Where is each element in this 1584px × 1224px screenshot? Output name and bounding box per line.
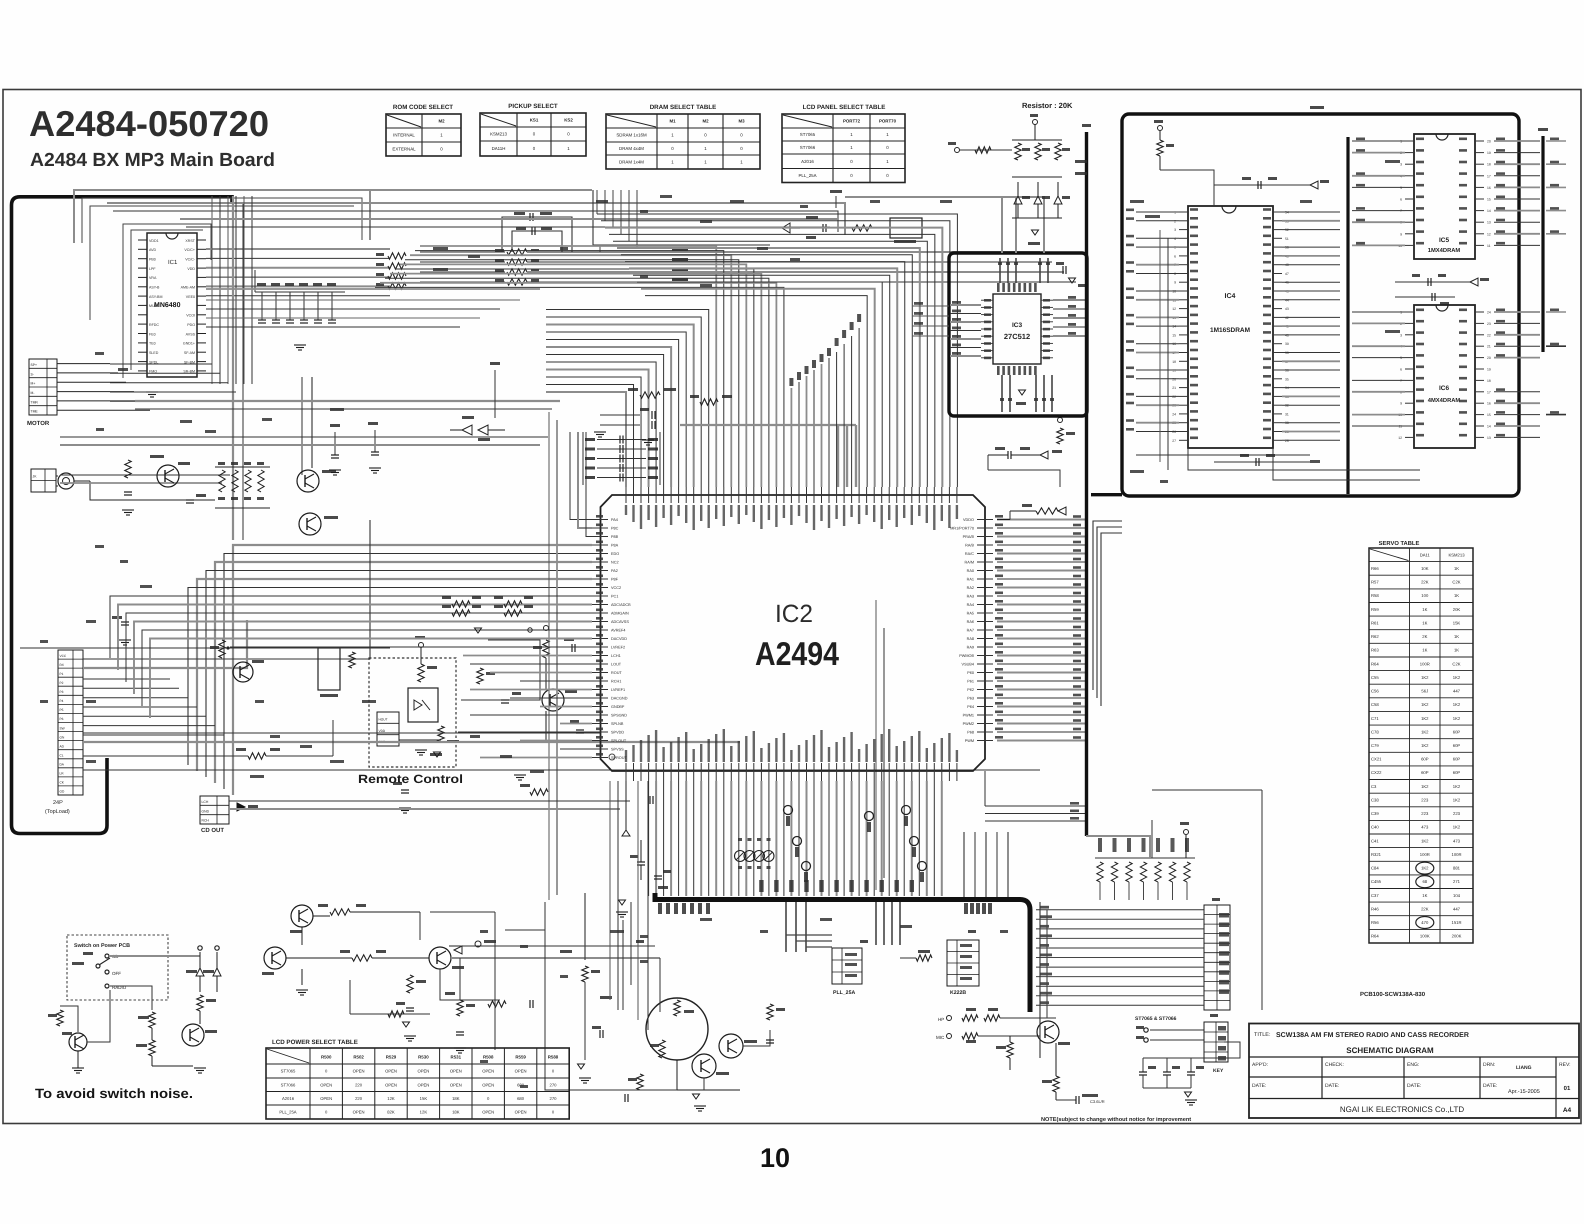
svg-text:1K2: 1K2 [1421, 743, 1429, 748]
svg-text:ST7066: ST7066 [800, 145, 816, 150]
svg-text:A4: A4 [1563, 1107, 1572, 1114]
svg-text:SP+: SP+ [31, 363, 38, 367]
svg-text:PWM: PWM [965, 739, 974, 743]
svg-text:PORT70: PORT70 [879, 119, 897, 124]
svg-text:R500: R500 [321, 1055, 332, 1060]
svg-text:60P: 60P [1421, 770, 1429, 775]
svg-text:1K2: 1K2 [1453, 716, 1461, 721]
svg-text:S-: S- [31, 372, 34, 376]
svg-text:1K: 1K [1454, 648, 1459, 653]
svg-text:ST7066: ST7066 [281, 1082, 296, 1087]
svg-text:21: 21 [1487, 345, 1491, 349]
svg-text:IC1: IC1 [168, 259, 178, 266]
svg-text:C41: C41 [1371, 838, 1379, 843]
svg-text:RA2: RA2 [967, 586, 974, 590]
svg-text:DACVDD: DACVDD [611, 637, 627, 641]
svg-text:12K: 12K [420, 1110, 428, 1115]
svg-text:DACGND: DACGND [611, 697, 628, 701]
svg-text:R64: R64 [1371, 934, 1379, 939]
svg-text:RCH: RCH [202, 819, 210, 823]
svg-text:60P: 60P [1453, 770, 1461, 775]
svg-text:M2: M2 [702, 119, 709, 124]
svg-text:PRA/B: PRA/B [963, 535, 975, 539]
svg-text:RA1: RA1 [967, 578, 974, 582]
svg-text:GND1+: GND1+ [183, 342, 195, 346]
svg-text:18K: 18K [452, 1110, 460, 1115]
svg-text:RA8: RA8 [967, 637, 974, 641]
svg-text:68: 68 [1422, 879, 1427, 884]
svg-text:VRA: VRA [149, 276, 157, 280]
svg-text:APP'D:: APP'D: [1252, 1062, 1268, 1068]
svg-text:1MX4DRAM: 1MX4DRAM [1428, 248, 1461, 254]
svg-text:P2: P2 [60, 681, 64, 685]
svg-text:KS1: KS1 [530, 118, 539, 123]
svg-text:11: 11 [1487, 244, 1491, 248]
svg-text:13: 13 [1487, 221, 1491, 225]
svg-text:DRAM 4x4M: DRAM 4x4M [619, 146, 644, 151]
svg-text:PORT72: PORT72 [843, 119, 861, 124]
svg-text:60P: 60P [1453, 729, 1461, 734]
svg-text:CD OUT: CD OUT [201, 827, 224, 834]
svg-text:CL: CL [60, 754, 64, 758]
svg-text:AVD: AVD [149, 248, 157, 252]
svg-text:R529: R529 [386, 1055, 397, 1060]
svg-text:100R: 100R [1420, 661, 1430, 666]
svg-text:LCD PANEL SELECT TABLE: LCD PANEL SELECT TABLE [803, 104, 886, 111]
svg-text:6: 6 [1174, 254, 1176, 258]
svg-text:VSUB4: VSUB4 [962, 663, 974, 667]
svg-text:IC2: IC2 [775, 600, 813, 628]
svg-text:470: 470 [1421, 920, 1429, 925]
svg-text:FE0: FE0 [149, 332, 156, 336]
svg-text:1K2: 1K2 [1421, 675, 1429, 680]
svg-text:RCH1: RCH1 [611, 680, 621, 684]
svg-text:C40: C40 [1371, 825, 1379, 830]
svg-text:C39: C39 [1371, 811, 1379, 816]
svg-text:ENG:: ENG: [1407, 1062, 1419, 1068]
svg-text:31: 31 [1285, 412, 1289, 416]
svg-text:P8B: P8B [611, 535, 619, 539]
svg-text:OPEN: OPEN [482, 1082, 494, 1087]
svg-text:SPSGND: SPSGND [611, 714, 627, 718]
svg-text:To avoid switch noise.: To avoid switch noise. [35, 1086, 193, 1101]
svg-text:EDO: EDO [611, 552, 619, 556]
svg-text:NGAI LIK ELECTRONICS Co.,LTD: NGAI LIK ELECTRONICS Co.,LTD [1340, 1105, 1465, 1114]
svg-text:200K: 200K [1452, 934, 1462, 939]
svg-text:LIANG: LIANG [1516, 1065, 1532, 1071]
svg-text:VEE0: VEE0 [186, 295, 195, 299]
svg-text:C55: C55 [1371, 675, 1379, 680]
svg-text:RA7: RA7 [967, 629, 974, 633]
svg-text:OPEN: OPEN [515, 1069, 527, 1074]
svg-text:15K: 15K [1453, 620, 1461, 625]
svg-text:LPF: LPF [149, 267, 156, 271]
svg-text:24: 24 [1172, 412, 1176, 416]
svg-text:AVREF4: AVREF4 [611, 629, 626, 633]
svg-text:1K: 1K [1454, 566, 1459, 571]
svg-text:LR: LR [60, 772, 65, 776]
svg-text:GND: GND [202, 809, 210, 813]
svg-text:51: 51 [1285, 237, 1289, 241]
svg-text:223: 223 [1453, 811, 1461, 816]
svg-text:VC/C+: VC/C+ [184, 248, 195, 252]
svg-text:R59: R59 [1371, 607, 1379, 612]
svg-text:HOUT: HOUT [379, 718, 388, 722]
svg-text:13: 13 [1487, 436, 1491, 440]
svg-text:TITLE:: TITLE: [1254, 1032, 1271, 1038]
svg-text:CHECK:: CHECK: [1325, 1062, 1344, 1068]
svg-text:P68: P68 [967, 731, 974, 735]
svg-text:MR1/PORT70: MR1/PORT70 [950, 527, 974, 531]
svg-text:151R: 151R [1451, 920, 1461, 925]
svg-text:271: 271 [1453, 879, 1461, 884]
svg-text:IC5: IC5 [1439, 237, 1450, 244]
svg-text:DRAM 1x4M: DRAM 1x4M [619, 160, 644, 165]
svg-text:1K2: 1K2 [1421, 716, 1429, 721]
svg-text:14: 14 [1487, 425, 1491, 429]
svg-text:ASY-BM: ASY-BM [149, 295, 162, 299]
svg-text:DA11: DA11 [1420, 552, 1431, 557]
svg-text:SCW138A AM FM STEREO RADIO A: SCW138A AM FM STEREO RADIO AND CASS RECO… [1276, 1032, 1469, 1039]
svg-text:P4: P4 [60, 699, 64, 703]
svg-text:IC4: IC4 [1225, 293, 1236, 300]
svg-text:SW: SW [60, 726, 65, 730]
svg-text:TME: TME [31, 410, 39, 414]
svg-text:ROM CODE SELECT: ROM CODE SELECT [393, 104, 453, 111]
svg-text:XRST: XRST [185, 239, 195, 243]
svg-text:R57: R57 [1371, 580, 1379, 585]
svg-text:PICKUP SELECT: PICKUP SELECT [508, 103, 558, 110]
svg-text:MIC: MIC [936, 1035, 945, 1040]
svg-text:LCD POWER SELECT TABLE: LCD POWER SELECT TABLE [272, 1039, 358, 1046]
svg-text:VDD: VDD [187, 267, 195, 271]
svg-text:R56: R56 [1371, 920, 1379, 925]
svg-text:PB0: PB0 [149, 258, 156, 262]
svg-text:P8F: P8F [611, 578, 619, 582]
svg-text:C78: C78 [1371, 729, 1379, 734]
svg-text:M1: M1 [669, 119, 676, 124]
svg-text:RA5: RA5 [967, 612, 974, 616]
svg-text:VCOI: VCOI [186, 314, 195, 318]
svg-text:60P: 60P [1453, 743, 1461, 748]
svg-text:P8A: P8A [611, 544, 619, 548]
svg-text:1K: 1K [1454, 634, 1459, 639]
svg-text:RA3: RA3 [967, 595, 974, 599]
svg-text:RA/M: RA/M [965, 561, 975, 565]
svg-text:DATE:: DATE: [1483, 1083, 1497, 1089]
svg-text:SPLOUT: SPLOUT [611, 739, 627, 743]
svg-text:PLL_25A: PLL_25A [798, 173, 816, 178]
svg-text:1K2: 1K2 [1453, 784, 1461, 789]
svg-text:PA2: PA2 [611, 569, 618, 573]
svg-text:ASY-B: ASY-B [149, 286, 160, 290]
svg-text:15: 15 [1172, 333, 1176, 337]
svg-text:PDO: PDO [187, 323, 195, 327]
svg-text:R321: R321 [1371, 852, 1382, 857]
svg-text:1K2: 1K2 [1421, 866, 1429, 871]
svg-text:K222B: K222B [950, 990, 966, 996]
svg-text:15: 15 [1487, 413, 1491, 417]
svg-text:LVREF2: LVREF2 [611, 646, 625, 650]
svg-text:KSM213: KSM213 [1448, 552, 1465, 557]
svg-text:P64: P64 [967, 705, 974, 709]
svg-text:9: 9 [1400, 232, 1402, 236]
svg-text:DRAM SELECT TABLE: DRAM SELECT TABLE [650, 104, 717, 111]
svg-text:1K2: 1K2 [1453, 825, 1461, 830]
svg-text:C3: C3 [1371, 784, 1377, 789]
svg-text:OPEN: OPEN [385, 1069, 397, 1074]
svg-text:23: 23 [1487, 322, 1491, 326]
svg-text:C455: C455 [1371, 879, 1382, 884]
svg-text:RA/C: RA/C [965, 552, 974, 556]
svg-text:PA4: PA4 [611, 518, 618, 522]
svg-text:PWM2: PWM2 [963, 722, 974, 726]
svg-text:1K2: 1K2 [1421, 702, 1429, 707]
svg-text:82K: 82K [387, 1110, 395, 1115]
svg-text:LCH: LCH [202, 800, 209, 804]
svg-text:R64: R64 [1371, 661, 1379, 666]
svg-text:100K: 100K [1420, 934, 1430, 939]
svg-text:ADMGAIN: ADMGAIN [611, 612, 629, 616]
svg-text:SDRAM 1x16M: SDRAM 1x16M [616, 133, 647, 138]
svg-text:RA6: RA6 [967, 620, 974, 624]
svg-text:VDD1: VDD1 [149, 239, 159, 243]
svg-text:100R: 100R [1420, 852, 1430, 857]
svg-text:223: 223 [1421, 798, 1429, 803]
svg-text:R559: R559 [515, 1055, 526, 1060]
svg-text:12K: 12K [387, 1096, 395, 1101]
svg-text:1K2: 1K2 [1421, 838, 1429, 843]
svg-text:Apr.-15-2005: Apr.-15-2005 [1508, 1089, 1540, 1095]
svg-text:C37: C37 [1371, 893, 1379, 898]
svg-text:21: 21 [1172, 386, 1176, 390]
svg-text:ST7065 & ST7066: ST7065 & ST7066 [1135, 1016, 1177, 1022]
svg-text:P8C: P8C [611, 527, 619, 531]
svg-text:CX21: CX21 [1371, 757, 1382, 762]
svg-text:1K: 1K [1422, 620, 1427, 625]
svg-text:1K2: 1K2 [1453, 798, 1461, 803]
svg-text:C2K: C2K [1452, 580, 1460, 585]
svg-text:C56: C56 [1371, 689, 1379, 694]
svg-text:A2484 BX MP3 Main Board: A2484 BX MP3 Main Board [30, 150, 275, 171]
svg-text:6: 6 [1400, 198, 1402, 202]
svg-text:22: 22 [1487, 333, 1491, 337]
svg-text:22K: 22K [1421, 906, 1429, 911]
svg-text:18K: 18K [452, 1096, 460, 1101]
svg-text:R61: R61 [1371, 620, 1379, 625]
svg-text:100R: 100R [1451, 852, 1461, 857]
svg-text:A2494: A2494 [755, 635, 840, 672]
svg-text:R58: R58 [1371, 593, 1379, 598]
svg-text:IC6: IC6 [1439, 385, 1450, 392]
svg-text:1K2: 1K2 [1453, 702, 1461, 707]
svg-text:223: 223 [1421, 811, 1429, 816]
svg-text:KS2: KS2 [564, 118, 573, 123]
svg-text:R46: R46 [1371, 906, 1379, 911]
svg-text:LCH1: LCH1 [611, 654, 621, 658]
svg-text:R66: R66 [1371, 566, 1379, 571]
svg-text:Resistor : 20K: Resistor : 20K [1022, 101, 1073, 110]
svg-text:DATE:: DATE: [1325, 1083, 1339, 1089]
svg-text:MUTE: MUTE [149, 304, 160, 308]
svg-text:104: 104 [1453, 893, 1461, 898]
svg-text:18: 18 [1172, 360, 1176, 364]
svg-text:SPVSS: SPVSS [611, 748, 624, 752]
svg-text:RA9: RA9 [967, 646, 974, 650]
svg-text:RA/B: RA/B [965, 544, 974, 548]
svg-text:R531: R531 [451, 1055, 462, 1060]
svg-text:AME-AM: AME-AM [181, 286, 195, 290]
svg-text:ROUT: ROUT [611, 671, 622, 675]
svg-text:10K: 10K [1421, 566, 1429, 571]
svg-text:A2016: A2016 [282, 1096, 295, 1101]
svg-text:GNDBF: GNDBF [611, 705, 625, 709]
svg-text:GN: GN [60, 735, 65, 739]
svg-text:VC/C-: VC/C- [185, 258, 196, 262]
svg-text:20K: 20K [1453, 607, 1461, 612]
svg-text:LOUT: LOUT [611, 663, 622, 667]
svg-text:(TopLoad): (TopLoad) [45, 809, 70, 815]
svg-text:12: 12 [1398, 436, 1402, 440]
svg-text:PC1: PC1 [611, 595, 618, 599]
svg-text:KEY: KEY [1213, 1068, 1224, 1074]
svg-text:SF-AM: SF-AM [184, 351, 195, 355]
svg-text:1K: 1K [1454, 593, 1459, 598]
svg-text:ADC/ADCB: ADC/ADCB [611, 603, 631, 607]
svg-text:RA0: RA0 [967, 569, 974, 573]
svg-text:16: 16 [1487, 402, 1491, 406]
svg-text:43: 43 [1285, 307, 1289, 311]
svg-text:1K2: 1K2 [1421, 784, 1429, 789]
svg-text:VDD: VDD [379, 729, 386, 733]
svg-text:1K2: 1K2 [1421, 729, 1429, 734]
svg-text:22K: 22K [1421, 580, 1429, 585]
svg-text:A2016: A2016 [801, 159, 814, 164]
svg-text:C38: C38 [1371, 798, 1379, 803]
svg-text:TMR: TMR [31, 400, 39, 404]
svg-text:20: 20 [1487, 356, 1491, 360]
svg-text:OPEN: OPEN [417, 1069, 429, 1074]
svg-text:R588: R588 [548, 1055, 559, 1060]
svg-text:R62: R62 [1371, 634, 1379, 639]
svg-text:OPEN: OPEN [417, 1082, 429, 1087]
svg-text:P61: P61 [967, 680, 974, 684]
svg-text:100: 100 [1421, 593, 1429, 598]
svg-text:680: 680 [517, 1096, 525, 1101]
svg-text:R508: R508 [483, 1055, 494, 1060]
svg-text:SPLNB: SPLNB [611, 722, 624, 726]
svg-text:9: 9 [1400, 402, 1402, 406]
svg-text:AVSS: AVSS [186, 332, 196, 336]
svg-text:18: 18 [1487, 379, 1491, 383]
svg-text:17: 17 [1487, 390, 1491, 394]
svg-text:447: 447 [1453, 906, 1461, 911]
svg-text:OPEN: OPEN [482, 1110, 494, 1115]
svg-text:SLED: SLED [149, 351, 159, 355]
svg-text:60P: 60P [1453, 757, 1461, 762]
svg-text:OPEN: OPEN [482, 1069, 494, 1074]
svg-text:SCHEMATIC DIAGRAM: SCHEMATIC DIAGRAM [1346, 1046, 1434, 1055]
svg-text:DA11H: DA11H [492, 146, 506, 151]
svg-text:10: 10 [760, 1143, 790, 1173]
svg-text:C3.6L/R: C3.6L/R [1090, 1099, 1105, 1104]
svg-text:39: 39 [1285, 342, 1289, 346]
svg-text:REV:: REV: [1559, 1062, 1570, 1068]
svg-text:R63: R63 [1371, 648, 1379, 653]
svg-text:OFF: OFF [112, 971, 121, 976]
svg-text:27: 27 [1172, 439, 1176, 443]
svg-text:MOTOR: MOTOR [27, 420, 50, 427]
svg-text:NC2: NC2 [611, 561, 619, 565]
svg-text:P6: P6 [60, 717, 64, 721]
svg-text:C71: C71 [1371, 716, 1379, 721]
svg-text:P1: P1 [60, 672, 64, 676]
svg-text:3: 3 [1174, 228, 1176, 232]
svg-text:NOTE(subject to change without: NOTE(subject to change without notice fo… [1041, 1116, 1191, 1123]
svg-text:OPEN: OPEN [320, 1082, 332, 1087]
svg-text:DATE:: DATE: [1407, 1083, 1421, 1089]
svg-text:M+: M+ [31, 382, 36, 386]
svg-text:56J: 56J [1421, 689, 1428, 694]
svg-text:OPEN: OPEN [385, 1082, 397, 1087]
svg-text:1M16SDRAM: 1M16SDRAM [1210, 327, 1250, 334]
svg-text:GD: GD [60, 790, 65, 794]
svg-text:P63: P63 [967, 697, 974, 701]
svg-text:24P: 24P [53, 800, 63, 806]
svg-text:4MX4DRAM: 4MX4DRAM [1428, 398, 1461, 404]
svg-text:INTERNAL: INTERNAL [393, 133, 415, 138]
svg-text:1K: 1K [1422, 648, 1427, 653]
svg-text:1K2: 1K2 [1453, 675, 1461, 680]
svg-text:SERVO TABLE: SERVO TABLE [1379, 540, 1420, 547]
svg-text:P3: P3 [60, 690, 64, 694]
svg-text:15: 15 [1487, 198, 1491, 202]
svg-text:12: 12 [1487, 232, 1491, 236]
svg-text:M-: M- [31, 391, 35, 395]
svg-text:VCC: VCC [60, 654, 67, 658]
svg-text:47: 47 [1285, 272, 1289, 276]
svg-text:OPEN: OPEN [353, 1110, 365, 1115]
svg-text:1K: 1K [1422, 607, 1427, 612]
svg-text:2K: 2K [1422, 634, 1427, 639]
svg-text:OPEN: OPEN [320, 1096, 332, 1101]
svg-text:R530: R530 [418, 1055, 429, 1060]
svg-text:PLL_25A: PLL_25A [279, 1110, 296, 1115]
svg-text:24: 24 [1487, 311, 1491, 315]
svg-text:OPEN: OPEN [450, 1069, 462, 1074]
svg-text:C84: C84 [1371, 866, 1379, 871]
svg-text:A2484-050720: A2484-050720 [29, 103, 269, 144]
svg-text:DATE:: DATE: [1252, 1083, 1266, 1089]
svg-text:ST7065: ST7065 [281, 1069, 296, 1074]
svg-text:P5: P5 [60, 708, 64, 712]
svg-text:12: 12 [1172, 307, 1176, 311]
svg-text:LVREF1: LVREF1 [611, 688, 625, 692]
svg-text:SPROUT: SPROUT [611, 756, 628, 760]
svg-text:R502: R502 [353, 1055, 364, 1060]
svg-text:3: 3 [1400, 163, 1402, 167]
svg-text:17: 17 [1487, 174, 1491, 178]
svg-text:20: 20 [1487, 140, 1491, 144]
svg-text:M3: M3 [738, 119, 745, 124]
svg-text:OPEN: OPEN [353, 1069, 365, 1074]
svg-text:VDDO: VDDO [963, 518, 974, 522]
svg-text:01: 01 [1564, 1085, 1571, 1092]
svg-text:447: 447 [1453, 689, 1461, 694]
svg-text:220: 220 [355, 1096, 363, 1101]
svg-text:VCC2: VCC2 [611, 586, 621, 590]
svg-text:AD: AD [60, 744, 65, 748]
